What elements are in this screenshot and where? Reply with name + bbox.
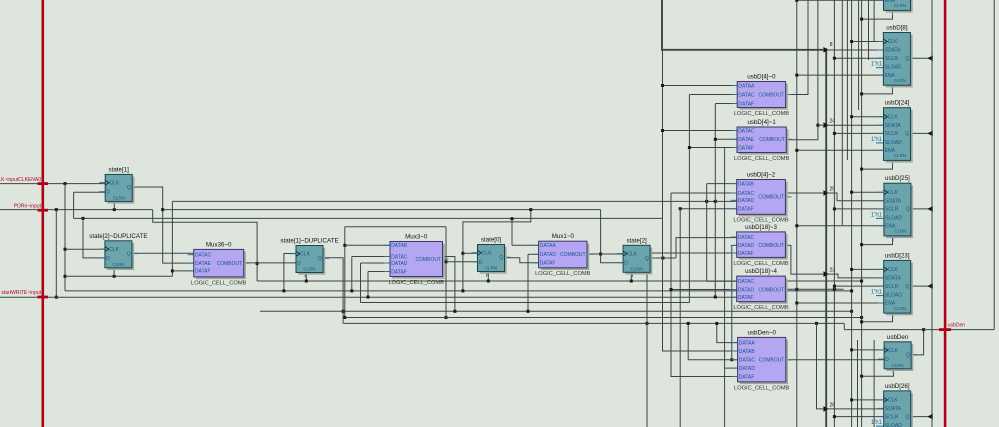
wire PORn step jog	[153, 210, 257, 281]
wire to usbD[18]~3.DATAC	[676, 238, 737, 258]
wire Mux1~0.COMBOUT to state[2].CLK	[587, 253, 623, 255]
wire Q of u23 to vertical	[910, 285, 932, 287]
value 1'h1 for u26	[876, 425, 883, 427]
wire usbD[18]~3.COMBOUT to bus tap 23	[785, 245, 823, 274]
svg-text:state[1]: state[1]	[109, 166, 130, 173]
wire to usbD[4]~2.DATAF	[680, 208, 737, 210]
wire PORn~input net	[0, 209, 153, 211]
wire usbDen.Q up	[911, 330, 924, 355]
wire to state[0].D	[446, 261, 478, 263]
wire CLK into u23	[852, 268, 884, 270]
svg-text:CLRN: CLRN	[112, 262, 124, 267]
svg-text:CLRN: CLRN	[894, 78, 906, 83]
svg-text:usbD[24]: usbD[24]	[885, 100, 910, 107]
node branch CLRN state[2]~DUPLICATE	[64, 275, 67, 278]
input pin CLK~inputCLKENA0	[38, 182, 49, 185]
node Q arrow u24	[927, 131, 933, 137]
node COMBOUT join y311	[453, 310, 456, 313]
wire to usbD[18]~3.DATAF	[647, 252, 737, 254]
svg-text:DATAC: DATAC	[391, 254, 408, 260]
svg-text:DATAF: DATAF	[540, 261, 556, 267]
wire to Mux3~0.DATAB	[345, 244, 390, 246]
node x680 corner tap	[679, 207, 682, 210]
wire state[1].CLRN stub	[113, 201, 115, 209]
wire y323 to usbDen out	[843, 323, 845, 329]
wire bus line x842 upper	[841, 0, 843, 225]
input pin PORn~input	[38, 209, 49, 212]
node ENA tap u8	[795, 74, 798, 77]
svg-text:DATAC: DATAC	[738, 92, 755, 98]
wire bus line x857 lower	[857, 340, 859, 427]
node branch state[0].D	[445, 260, 448, 263]
svg-text:SDATA: SDATA	[885, 123, 902, 129]
wire DATAD feed vertical	[360, 263, 362, 303]
node ENA tap u24	[795, 149, 798, 152]
svg-text:state[2]: state[2]	[626, 237, 647, 244]
wire to usbD[4]~1.DATAC	[663, 130, 738, 132]
wire CLK~input net to state[1].CLK	[0, 183, 105, 185]
node CLRN tap usbDen	[860, 375, 863, 378]
svg-text:DATAF: DATAF	[739, 374, 755, 380]
node branch Mux36~0.DATAF	[171, 269, 174, 272]
wire tap to usbD[24].SDATA	[826, 124, 883, 126]
node bus tap arrow bit 26	[823, 406, 829, 412]
svg-text:LOGIC_CELL_COMB: LOGIC_CELL_COMB	[734, 156, 790, 162]
wire feeder x724 lower	[724, 368, 726, 427]
wire CLRN route top	[862, 10, 893, 19]
flip-flop state[2]	[617, 237, 656, 277]
wire CLRN route u8	[862, 85, 893, 94]
svg-text:state[1]~DUPLICATE: state[1]~DUPLICATE	[280, 238, 338, 245]
wire bus line x858 upper	[858, 0, 860, 110]
svg-text:LOGIC_CELL_COMB: LOGIC_CELL_COMB	[733, 305, 789, 311]
svg-text:CLRN: CLRN	[304, 267, 316, 272]
svg-text:1'h1: 1'h1	[871, 137, 883, 143]
svg-text:CLRN: CLRN	[631, 267, 643, 272]
wire state[1]~DUPLICATE.Q down to y323 trunk	[323, 258, 343, 324]
wire vertical x73	[73, 192, 75, 218]
flip-flop state[1]	[99, 166, 138, 206]
node x662 tap A	[661, 84, 664, 87]
svg-text:CLK: CLK	[300, 252, 310, 258]
wire net y276	[65, 275, 172, 277]
node CLRN tap u25	[860, 243, 863, 246]
wire to usbDen~0.DATAA	[717, 323, 738, 342]
svg-text:DATAA: DATAA	[738, 83, 755, 89]
wire to usbD[18]~3.DATAD	[732, 244, 737, 246]
wire startWRITE~input net to usbD[18]~4.DATAF	[0, 296, 737, 298]
wire ENA trunk x796	[796, 0, 798, 427]
wire feeder x724 to usbDen~0.DATAD	[725, 148, 738, 369]
right boundary line	[944, 0, 947, 427]
node Q arrow u8	[927, 55, 933, 61]
node Q arrow u25	[927, 206, 933, 212]
wire to usbD[4]~0.DATAF	[715, 103, 737, 105]
node on CLK trunk	[350, 289, 353, 292]
wire vertical x994 up right edge	[993, 0, 995, 330]
flip-flop usbD[26]	[878, 383, 917, 427]
svg-text:usbD[23]: usbD[23]	[885, 252, 910, 259]
value 1'h1 for u8	[876, 67, 883, 69]
wire usbDen output net	[844, 329, 994, 331]
wire to state[0].CLK	[463, 252, 478, 254]
wire bus line x874 upper	[873, 0, 875, 42]
svg-text:8: 8	[830, 42, 833, 48]
wire DATAA feed vertical	[511, 219, 513, 246]
wire Q of u25 to vertical	[910, 208, 932, 210]
svg-text:DATAC: DATAC	[738, 191, 755, 197]
svg-text:DATAF: DATAF	[738, 101, 754, 107]
node y323 tap C	[687, 322, 690, 325]
wire SCLR into u8	[834, 57, 883, 59]
node state[1].Q junction	[161, 208, 164, 211]
svg-text:SCLR: SCLR	[885, 56, 899, 62]
svg-text:DATAF: DATAF	[738, 207, 754, 213]
svg-text:usbD[8]: usbD[8]	[886, 25, 908, 32]
svg-text:COMBOUT: COMBOUT	[758, 195, 784, 201]
svg-text:Q: Q	[906, 352, 910, 358]
svg-text:CLRN: CLRN	[485, 266, 497, 271]
svg-text:COMBOUT: COMBOUT	[217, 261, 243, 267]
svg-text:CLRN: CLRN	[113, 196, 125, 201]
wire usbDen.CLRN route	[862, 369, 894, 377]
svg-text:Mux1~0: Mux1~0	[552, 233, 575, 240]
node bus tap arrow bit 23	[823, 271, 829, 277]
wire to Mux36~0.DATAF	[172, 270, 193, 272]
logic cell Mux1~0	[533, 233, 593, 277]
flip-flop state[1]~DUPLICATE	[280, 238, 338, 278]
wire Mux3~0.COMBOUT down	[443, 257, 455, 312]
flip-flop state[0]	[472, 237, 511, 277]
wire CLK net vertical	[64, 184, 66, 291]
node CLK tap u24	[850, 115, 853, 118]
node at state[2].CLK crossing	[599, 253, 602, 256]
svg-text:Q: Q	[906, 414, 910, 420]
svg-text:SCLR: SCLR	[885, 284, 899, 290]
svg-text:LOGIC_CELL_COMB: LOGIC_CELL_COMB	[734, 111, 790, 117]
flip-flop usbD[25]	[878, 175, 917, 241]
logic cell Mux3~0	[384, 234, 449, 286]
wire CLRN route u25	[862, 236, 893, 245]
svg-text:DATAF: DATAF	[391, 269, 407, 275]
wire ENA into u8	[797, 74, 884, 76]
node CLRN trunk meets y280	[860, 280, 863, 283]
wire vertical feeder x689	[688, 95, 690, 303]
node y311 end tap	[850, 310, 853, 313]
wire net y218	[74, 217, 663, 219]
wire Q of u8 to vertical	[910, 57, 932, 59]
svg-text:CLK: CLK	[110, 180, 120, 186]
svg-text:CLRN: CLRN	[894, 153, 906, 158]
wire to Mux1~0.DATAA	[512, 244, 539, 246]
node tap y317	[343, 316, 346, 319]
wire vertical x600 to state[2].D	[601, 210, 624, 263]
logic cell usbD[18]~3	[731, 224, 792, 267]
svg-text:D: D	[297, 261, 301, 267]
svg-text:Q: Q	[905, 131, 909, 137]
svg-text:1'h1: 1'h1	[871, 290, 883, 296]
wire to Mux3~0.DATAD	[361, 262, 391, 264]
logic cell usbD[4]~0	[731, 74, 791, 117]
node CLK tap usbDen	[850, 348, 853, 351]
node startWRITE tap	[367, 296, 370, 299]
wire net y201 to usbD[4]~2.DATAD	[172, 200, 736, 202]
wire state[1]~DUPLICATE.CLRN stub	[305, 273, 307, 281]
node CLRN tap state[2]~DUPLICATE	[113, 275, 116, 278]
svg-text:PORn~input: PORn~input	[14, 203, 42, 209]
wire CLK into u26	[852, 399, 884, 401]
wire PORn CLRN trunk	[257, 280, 862, 282]
svg-text:DATAF: DATAF	[738, 251, 754, 257]
svg-text:COMBOUT: COMBOUT	[759, 358, 785, 364]
svg-text:COMBOUT: COMBOUT	[415, 257, 441, 263]
svg-text:DATAC: DATAC	[195, 253, 212, 259]
svg-text:usbD[4]~1: usbD[4]~1	[747, 119, 776, 126]
wire Mux36~0.COMBOUT to state[1]~DUPLICATE.D	[244, 262, 296, 264]
svg-text:usbD[4]~2: usbD[4]~2	[747, 172, 776, 179]
svg-text:SLOAD: SLOAD	[885, 293, 902, 299]
wire vertical x932	[931, 0, 933, 427]
node x671 tap DATAD	[670, 288, 673, 291]
svg-text:state[2]~DUPLICATE: state[2]~DUPLICATE	[89, 233, 147, 240]
wire SCLR into u25	[834, 208, 883, 210]
node y323 tap usbDen A	[715, 322, 718, 325]
svg-text:SLOAD: SLOAD	[885, 140, 902, 146]
wire to Mux1~0.DATAD	[528, 253, 539, 255]
node Q arrow u26	[927, 414, 933, 420]
logic cell usbD[4]~2	[731, 172, 792, 224]
wire vertical feeder x731	[731, 245, 733, 359]
wire vertical feeder x680	[679, 209, 681, 427]
flip-flop usbDen	[878, 334, 917, 374]
wire ENA into u24	[797, 149, 884, 151]
node x689 tap DATAF	[688, 146, 691, 149]
wire SCLR into u24	[834, 132, 883, 134]
node tap on y210 net	[529, 208, 532, 211]
wire DATAC feed vertical	[687, 323, 689, 359]
svg-text:usbD[18]~4: usbD[18]~4	[745, 268, 777, 275]
svg-text:LOGIC_CELL_COMB: LOGIC_CELL_COMB	[535, 271, 591, 277]
svg-text:Q: Q	[905, 56, 909, 62]
flip-flop usbD[23]	[878, 252, 917, 318]
node SCLR tap u25	[833, 207, 836, 210]
svg-text:CLK: CLK	[888, 398, 898, 404]
svg-text:CLK: CLK	[888, 39, 898, 45]
svg-text:Q: Q	[906, 284, 910, 290]
svg-text:Q: Q	[127, 185, 131, 191]
wire vertical x446	[445, 227, 447, 318]
wire CLK into u25	[852, 191, 884, 193]
wire to usbD[4]~2.DATAB	[707, 183, 737, 185]
svg-text:CLRN: CLRN	[894, 3, 906, 8]
wire thick bus vertical	[825, 50, 827, 427]
wire to bus tap 24	[818, 124, 823, 126]
node CLK trunk tap	[282, 289, 285, 292]
wire trunk y302	[361, 302, 690, 304]
wire branch down to bus tap 26	[817, 323, 824, 409]
svg-text:1'h1: 1'h1	[871, 212, 883, 218]
wire CLK into u24	[852, 116, 884, 118]
wire tap to usbD[8].SDATA	[826, 49, 883, 51]
node tap y317	[445, 316, 448, 319]
svg-text:usbDen~0: usbDen~0	[748, 329, 777, 336]
node join startWRITE row	[55, 296, 58, 299]
node branch state[0].CLK	[461, 252, 464, 255]
wire vertical feeder x662 to usbDen~0.DATAB	[663, 50, 738, 351]
svg-text:SLOAD: SLOAD	[885, 65, 902, 71]
flip-flop usbD[24]	[878, 100, 917, 166]
node startWRITE end tap	[714, 296, 717, 299]
svg-text:usbD[26]: usbD[26]	[885, 383, 910, 390]
wire CLK feed state[1]~DUPLICATE	[284, 254, 296, 291]
node CLK net junction	[64, 182, 67, 185]
node PORn at state[1].CLRN	[113, 208, 116, 211]
node SCLR tap u8	[833, 57, 836, 60]
svg-text:D: D	[885, 357, 889, 363]
output pin usbDen	[939, 328, 951, 331]
logic cell usbD[18]~4	[731, 268, 792, 311]
svg-text:DATAC: DATAC	[739, 358, 756, 364]
node CLK tap u25	[850, 191, 853, 194]
node D-feed tap	[82, 217, 85, 220]
node crossing Mux36 COMBOUT net	[256, 262, 259, 265]
node SCLR tap u26	[833, 415, 836, 418]
svg-text:LOGIC_CELL_COMB: LOGIC_CELL_COMB	[389, 280, 445, 286]
wire ENA into top	[797, 0, 884, 1]
wire lower trunk y311	[260, 310, 852, 312]
svg-text:DATAD: DATAD	[391, 261, 408, 267]
logic cell usbD[4]~1	[731, 119, 792, 162]
svg-text:SDATA: SDATA	[885, 198, 902, 204]
svg-text:usbDen: usbDen	[887, 334, 909, 341]
node bus tap arrow bit 8	[823, 47, 829, 53]
node COMBOUT crossing	[730, 358, 733, 361]
node y218 tap	[511, 217, 514, 220]
wire tap to usbD[25].SDATA	[826, 193, 884, 201]
svg-text:DATAF: DATAF	[195, 269, 211, 275]
node CLK tap u23	[850, 268, 853, 271]
svg-text:LOGIC_CELL_COMB: LOGIC_CELL_COMB	[733, 218, 789, 224]
wire to usbD[4]~0.DATAA	[663, 85, 738, 87]
svg-text:LOGIC_CELL_COMB: LOGIC_CELL_COMB	[191, 280, 247, 286]
wire DATAD feed vertical	[527, 254, 529, 311]
node branch Mux3~0.DATAB	[343, 244, 346, 247]
svg-text:Mux3~0: Mux3~0	[405, 234, 428, 241]
value 1'h1 for u23	[876, 295, 883, 297]
value 1'h1 for u24	[876, 142, 883, 144]
wire CLK into u8	[852, 41, 884, 43]
wire to usbDen~0.DATAC	[688, 359, 737, 361]
svg-text:CLK: CLK	[888, 114, 898, 120]
svg-text:SCLR: SCLR	[885, 207, 899, 213]
node CLK tap u8	[850, 40, 853, 43]
wire CLRN route u23	[862, 313, 893, 322]
wire bus line x847 upper	[846, 0, 848, 160]
svg-text:DATAD: DATAD	[738, 198, 755, 204]
svg-text:DATAF: DATAF	[738, 295, 754, 301]
svg-text:Q: Q	[318, 256, 322, 262]
node SCLR tap u23	[833, 285, 836, 288]
svg-text:LOGIC_CELL_COMB: LOGIC_CELL_COMB	[734, 385, 790, 391]
svg-text:COMBOUT: COMBOUT	[758, 287, 784, 293]
svg-text:COMBOUT: COMBOUT	[560, 252, 586, 258]
wire to usbD[4]~0.DATAC	[689, 94, 737, 96]
wire step feed state[0].CLK	[463, 210, 531, 291]
wire to state[2]~DUPLICATE.D	[83, 218, 105, 258]
wire feeder x671 to usbDen~0.DATAF	[671, 193, 738, 377]
wire state[2].CLRN stub	[630, 272, 632, 281]
svg-text:COMBOUT: COMBOUT	[759, 92, 785, 98]
svg-text:CLK~inputCLKENA0: CLK~inputCLKENA0	[0, 177, 41, 183]
svg-text:D: D	[106, 256, 110, 262]
wire thick bus from top	[662, 0, 823, 50]
wire state[0].Q to Mux1~0.DATAF	[504, 258, 538, 263]
svg-text:CLK: CLK	[627, 251, 637, 257]
wire SCLR into u23	[834, 285, 883, 287]
logic cell usbDen~0	[732, 329, 792, 391]
node SCLR trunk crossing	[833, 288, 836, 291]
wire state[2]~DUPLICATE.Q to Mux36~0.DATAC	[132, 252, 194, 254]
wire to usbD[18]~4.DATAD	[671, 289, 737, 291]
svg-text:startWRITE~input: startWRITE~input	[1, 290, 41, 296]
value 1'h1 for u25	[876, 217, 883, 219]
node crossing x715	[714, 200, 717, 203]
node CLK branch state[2]~DUPLICATE	[64, 248, 67, 251]
svg-text:Q: Q	[645, 256, 649, 262]
wire CLK into state[2]~DUPLICATE	[65, 248, 105, 250]
svg-text:DATAC: DATAC	[738, 279, 755, 285]
svg-text:DATAB: DATAB	[738, 181, 755, 187]
wire usbDen~0.COMBOUT to usbDen.D	[786, 359, 884, 361]
svg-text:COMBOUT: COMBOUT	[758, 243, 784, 249]
flip-flop usbD[8]	[877, 25, 916, 91]
svg-text:DATAA: DATAA	[739, 340, 756, 346]
node CLRN tap u23	[860, 320, 863, 323]
wire to state[1].D	[74, 191, 105, 193]
svg-text:DATAD: DATAD	[738, 243, 755, 249]
wire usbD[4]~0.COMBOUT up	[786, 0, 808, 95]
input pin startWRITE~input	[38, 296, 49, 299]
svg-text:D: D	[624, 261, 628, 267]
svg-text:DATAD: DATAD	[738, 287, 755, 293]
svg-text:D: D	[106, 190, 110, 196]
wire state[0].CLRN stub	[487, 272, 489, 281]
svg-text:DATAD: DATAD	[540, 252, 557, 258]
svg-text:DATAB: DATAB	[739, 349, 756, 355]
wire lower trunk y317	[345, 317, 861, 319]
node crossing y311	[342, 310, 345, 313]
wire to usbD[4]~1.DATAE	[715, 138, 737, 140]
wire usbD[4]~1.COMBOUT up	[786, 0, 818, 140]
node ENA tap top	[795, 0, 798, 2]
svg-text:DATAE: DATAE	[195, 261, 212, 267]
node usbDen Q join	[922, 328, 925, 331]
wire ENA into u23	[797, 302, 884, 304]
svg-text:DATAB: DATAB	[391, 243, 408, 249]
node CLK tap u26	[850, 398, 853, 401]
svg-text:DATAC: DATAC	[738, 235, 755, 241]
svg-text:Q: Q	[127, 251, 131, 257]
node state[2].Q junction	[661, 257, 664, 260]
svg-text:Mux36~0: Mux36~0	[206, 241, 232, 248]
wire bus line x868 upper	[868, 0, 870, 60]
wire to usbD[4]~2.DATAC	[671, 192, 737, 194]
svg-text:CLK: CLK	[888, 190, 898, 196]
svg-text:CLK: CLK	[109, 247, 119, 253]
svg-text:CLRN: CLRN	[892, 363, 904, 368]
svg-text:SDATA: SDATA	[885, 48, 902, 54]
wire tap to usbD[23].SDATA	[826, 274, 884, 278]
